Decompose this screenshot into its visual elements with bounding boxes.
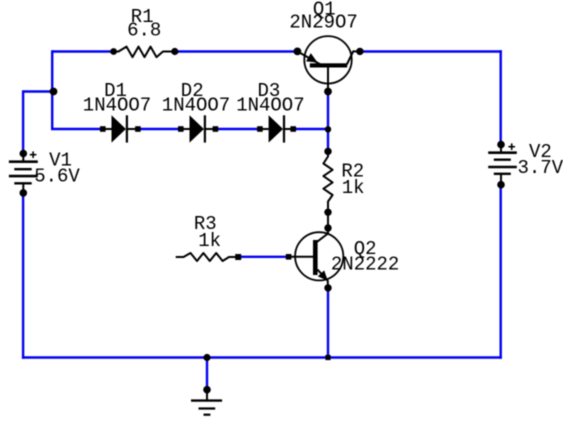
wire R3 to Q2 base: [238, 256, 289, 258]
node dot R1 left: [110, 48, 117, 55]
terminal dot V1 top: [20, 150, 28, 158]
transistor Q1: [297, 36, 360, 91]
node dot Q1 base: [324, 88, 332, 96]
terminal dot D3 anode: [257, 126, 263, 132]
svg-text:1N4OO7: 1N4OO7: [162, 95, 230, 117]
node junction diode row to R2: [325, 126, 331, 132]
svg-text:5.6V: 5.6V: [34, 165, 80, 187]
terminal dot D3 cathode: [290, 126, 296, 132]
battery V1: [9, 154, 38, 193]
terminal dot ground: [203, 386, 211, 394]
node dot Q2 collector: [324, 224, 331, 231]
ground: [191, 390, 222, 415]
node junction Q2 emitter on rail: [325, 355, 330, 360]
wire V1 branch horizontal: [23, 90, 53, 92]
terminal dot V2 bottom: [497, 181, 505, 189]
resistor R3: [176, 253, 238, 261]
svg-text:2N2222: 2N2222: [331, 254, 399, 276]
svg-text:1k: 1k: [198, 230, 221, 252]
wire left top vertical: [51, 50, 53, 129]
terminal dot Q2 base: [286, 254, 292, 260]
wire top rail left segment: [52, 50, 113, 52]
node dot Q1 collector: [356, 48, 363, 55]
terminal dot D2 anode: [178, 126, 184, 132]
wire top rail right segment: [360, 50, 502, 52]
terminal dot D1 cathode: [135, 126, 141, 132]
wire bottom rail: [22, 356, 502, 358]
terminal dot V1 bottom: [20, 189, 28, 197]
diode D1: [103, 115, 138, 142]
node junction V1 branch: [50, 88, 58, 96]
battery V2: [488, 145, 517, 185]
resistor R2: [323, 151, 332, 212]
battery V2 plus sign: [508, 143, 515, 150]
node dot R2 top: [324, 148, 331, 155]
diode D2: [181, 115, 216, 142]
wire D1 to D2: [138, 128, 181, 130]
wire right rail upper: [500, 50, 502, 144]
wire right rail lower: [500, 185, 502, 359]
svg-text:1N4OO7: 1N4OO7: [83, 95, 151, 117]
wire Q2 emitter down: [327, 288, 329, 358]
resistor R1: [114, 47, 175, 58]
svg-text:1k: 1k: [342, 177, 365, 199]
node dot R2 bottom: [324, 209, 331, 216]
battery V1 plus sign: [30, 151, 37, 158]
svg-text:2N29O7: 2N29O7: [289, 12, 357, 34]
terminal dot R3 right: [235, 254, 241, 260]
node dot Q2 emitter: [324, 284, 331, 291]
wire D2 to D3: [215, 128, 260, 130]
terminal dot D2 cathode: [213, 126, 219, 132]
wire ground stub: [206, 358, 208, 390]
diode D3: [260, 115, 293, 142]
terminal dot V2 top: [497, 141, 505, 149]
transistor Q2: [289, 228, 344, 288]
node dot R1 right: [171, 48, 178, 55]
wire left rail: [22, 193, 24, 359]
node dot Q1 emitter: [294, 48, 302, 56]
wire top rail middle segment: [175, 50, 298, 52]
wire R2 to Q2 collector: [327, 212, 329, 228]
wire diode feed: [51, 128, 103, 130]
wire Q1 base to R2: [327, 92, 329, 152]
terminal dot D1 anode: [100, 126, 106, 132]
svg-text:6.8: 6.8: [127, 20, 161, 42]
wire V1 branch vertical: [22, 90, 24, 153]
wire D3 to node: [293, 128, 328, 130]
node junction ground on rail: [203, 354, 210, 361]
svg-text:3.7V: 3.7V: [518, 157, 563, 179]
svg-text:1N4OO7: 1N4OO7: [236, 95, 304, 117]
